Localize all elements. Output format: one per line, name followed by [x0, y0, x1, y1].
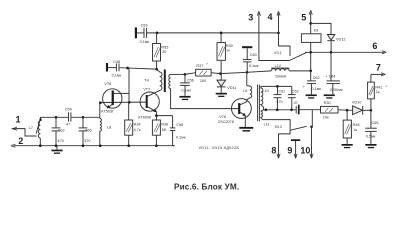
pin 2 arrow: [11, 144, 15, 147]
svg-text:R41: R41: [375, 85, 382, 89]
svg-text:470: 470: [57, 139, 63, 143]
svg-text:VD12: VD12: [336, 38, 346, 42]
svg-text:L7: L7: [29, 126, 33, 130]
svg-text:L12: L12: [275, 64, 281, 68]
wire C48 to T4 node: [119, 68, 156, 69]
svg-text:2: 2: [18, 136, 23, 146]
svg-text:+ C64: + C64: [325, 74, 335, 78]
svg-text:К3.2: К3.2: [275, 125, 283, 129]
node: K3.2 fixed: [310, 126, 313, 129]
output transformer core: [257, 85, 259, 122]
resistor R55: [153, 33, 169, 69]
relay contact K3.2: [275, 125, 307, 130]
capacitor C63 (series to K3.2/R30): [296, 105, 320, 115]
capacitor C60: [243, 48, 259, 72]
svg-text:VD11: VD11: [227, 86, 236, 90]
node: emitter branch: [155, 114, 158, 117]
svg-text:5: 5: [301, 12, 306, 22]
svg-text:VT8: VT8: [219, 115, 226, 119]
svg-text:6: 6: [372, 41, 377, 51]
svg-text:C62: C62: [292, 89, 299, 93]
node: rail/K3: [309, 51, 312, 54]
node: C60/L9: [246, 71, 249, 74]
svg-text:L9: L9: [243, 89, 247, 93]
svg-text:4: 4: [268, 12, 273, 22]
wire: rail down to main rail: [310, 52, 312, 71]
pin 1 arrow: [12, 129, 37, 136]
svg-text:56: 56: [162, 128, 166, 132]
svg-text:47: 47: [66, 123, 70, 127]
capacitor C69: [137, 23, 149, 44]
wire: L11 bottom to K3.2: [263, 120, 291, 130]
wire: drop to VT7 base line: [128, 68, 130, 102]
capacitor C48: [108, 60, 121, 77]
transformer T4: [144, 69, 170, 92]
svg-text:0,1мк: 0,1мк: [249, 64, 259, 68]
wire: pin3 line to K3.1 arm: [259, 33, 290, 61]
resistor R39: [217, 32, 233, 74]
resistor R30: [321, 101, 348, 119]
wire: L10 top rail: [261, 85, 292, 87]
ground (C64): [324, 94, 335, 98]
svg-text:1: 1: [16, 115, 21, 125]
node: R55 top: [156, 32, 159, 35]
svg-text:VT7: VT7: [143, 87, 150, 91]
ground (C62): [306, 94, 317, 98]
node: VD10 anode: [346, 109, 349, 112]
svg-text:C58: C58: [176, 123, 183, 127]
pin 9 arrow: [295, 141, 297, 158]
svg-text:10: 10: [300, 146, 310, 156]
wire: T4 secondary bottom to VT8 base: [171, 89, 239, 109]
node: C61 top: [276, 85, 279, 88]
inductor L10: [261, 86, 269, 109]
node: main rail end: [309, 70, 312, 73]
svg-text:VD11..VD15-КД522Б: VD11..VD15-КД522Б: [199, 146, 240, 150]
capacitor C64: [325, 52, 343, 94]
terminal bar (C69 feed): [135, 27, 137, 38]
relay contact K3.1: [274, 51, 306, 60]
resistor R46: [343, 110, 359, 144]
capacitor C65: [365, 110, 378, 144]
resistor R41: [368, 74, 388, 110]
wire: VT8 emitter to ground: [244, 116, 246, 127]
transistor VT8: [218, 99, 251, 125]
main rail R37..L12: [220, 72, 247, 73]
svg-text:47: 47: [294, 101, 298, 105]
node: L7 / rail junctions: [39, 144, 42, 147]
svg-text:30: 30: [162, 50, 166, 54]
capacitor C62a: [288, 86, 299, 111]
inductor L8: [99, 117, 111, 147]
svg-text:L11: L11: [264, 122, 270, 126]
svg-text:L8: L8: [107, 126, 111, 130]
svg-text:C62: C62: [58, 128, 65, 132]
capacitor C61: [274, 86, 286, 111]
svg-text:4,7к: 4,7к: [134, 128, 141, 132]
capacitor C66 (input shunt): [79, 116, 92, 147]
wire: pin4 node to K3.1 throw: [279, 33, 291, 56]
svg-text:20мкН: 20мкН: [275, 74, 286, 78]
svg-text:VT6: VT6: [104, 82, 111, 86]
svg-text:К3.1: К3.1: [274, 51, 282, 55]
svg-text:C56: C56: [187, 78, 194, 82]
terminal bar (C60 top): [242, 46, 252, 48]
node: pin4 / K3.1: [277, 32, 280, 35]
svg-text:R30: R30: [324, 101, 331, 105]
svg-text:C61: C61: [278, 89, 285, 93]
ground (input rail): [51, 150, 62, 154]
capacitor C62 (input shunt): [52, 116, 65, 147]
pin 4 arrow: [278, 13, 280, 33]
relay coil K3: [301, 23, 321, 52]
input top rail: [40, 116, 68, 118]
ground (R46): [342, 144, 353, 148]
svg-text:3: 3: [248, 13, 253, 23]
svg-text:2SC2078: 2SC2078: [218, 120, 234, 124]
svg-text:0,1мк: 0,1мк: [176, 135, 186, 139]
center tap wire: [264, 109, 296, 111]
ground (C56): [179, 96, 190, 100]
inductor L9 (output transformer primary): [243, 72, 252, 101]
node: R41/C65: [370, 109, 373, 112]
svg-text:К3: К3: [314, 28, 318, 32]
wire: K3.2 to pin8: [279, 130, 291, 158]
pin 6 rail: [305, 51, 384, 53]
svg-text:1к: 1к: [226, 48, 230, 52]
svg-text:КТ6008: КТ6008: [138, 115, 151, 119]
transistor VT6: [101, 82, 129, 113]
svg-text:R37: R37: [196, 64, 203, 68]
resistor R37: [185, 62, 220, 82]
wire: R30 down to K3.2 node: [311, 110, 313, 127]
svg-text:7: 7: [376, 63, 381, 73]
svg-text:8: 8: [271, 146, 276, 156]
capacitor C56: [180, 74, 194, 96]
svg-text:C54: C54: [65, 108, 72, 112]
diode VD10: [347, 101, 371, 115]
node: C48/VT7 base drop: [126, 67, 129, 70]
svg-text:C65: C65: [372, 121, 379, 125]
svg-text:0,1мк: 0,1мк: [312, 87, 322, 91]
svg-text:R39: R39: [226, 44, 233, 48]
svg-text:C60: C60: [250, 53, 257, 57]
svg-text:VD10: VD10: [352, 101, 362, 105]
svg-text:Рис.6. Блок УМ.: Рис.6. Блок УМ.: [174, 182, 239, 191]
terminal bar (C48 feed): [106, 63, 108, 72]
pin 3 arrow: [258, 13, 260, 33]
svg-text:R34: R34: [134, 122, 141, 126]
svg-text:9: 9: [287, 146, 292, 156]
bottom ground rail: [14, 145, 175, 147]
pin 9 terminal bar: [291, 139, 300, 141]
svg-text:C69: C69: [141, 23, 148, 27]
top rail to pin4 node: [147, 32, 279, 34]
svg-text:C62: C62: [313, 76, 320, 80]
node: K3 top: [309, 22, 312, 25]
svg-text:0,1мк: 0,1мк: [140, 40, 150, 44]
ground (VD11): [216, 93, 227, 97]
svg-text:2200мк: 2200мк: [330, 88, 343, 92]
svg-text:10к: 10к: [323, 116, 329, 120]
svg-text:1к: 1к: [353, 128, 357, 132]
node: VT7 base: [128, 101, 131, 104]
inductor L7: [29, 117, 42, 146]
svg-text:100: 100: [200, 79, 206, 83]
resistor R34: [125, 102, 141, 147]
inductor L12: [271, 64, 289, 78]
svg-text:C48: C48: [113, 60, 120, 64]
svg-text:Т4: Т4: [144, 78, 148, 82]
transistor VT7: [138, 87, 160, 119]
svg-text:C66: C66: [85, 128, 92, 132]
ground (VT8 emitter): [239, 127, 253, 132]
svg-text:0,5мк: 0,5мк: [366, 135, 376, 139]
svg-text:R46: R46: [353, 123, 360, 127]
svg-text:0,1мк: 0,1мк: [181, 89, 191, 93]
capacitor C62 (supply bypass): [303, 71, 322, 94]
node: R39/VD11: [219, 72, 222, 75]
node: T4 primary top: [155, 68, 158, 71]
svg-text:470: 470: [84, 139, 90, 143]
diode VD11: [217, 74, 237, 93]
svg-text:КТ503Г: КТ503Г: [101, 109, 114, 113]
svg-text:L10: L10: [262, 89, 268, 93]
wire: VT7 emitter down: [155, 112, 157, 120]
pin 7 arrow: [371, 73, 383, 75]
wire: T4 secondary top to rail: [171, 73, 185, 75]
svg-text:R55: R55: [161, 45, 168, 49]
diode VD12: [311, 23, 346, 52]
pin 5 arrow: [310, 12, 312, 23]
capacitor C58: [170, 116, 186, 146]
node: C56: [184, 73, 187, 76]
capacitor C54 (series): [65, 108, 72, 127]
svg-text:1к: 1к: [376, 90, 380, 94]
inductor L11: [261, 110, 270, 127]
wire: rail corner up to VT6 emitter line: [100, 102, 146, 117]
svg-text:470: 470: [276, 100, 282, 104]
svg-text:0,1мк: 0,1мк: [112, 73, 122, 77]
ground (C65): [365, 144, 376, 148]
node: rail/VD12/C64: [330, 51, 333, 54]
pin 10 arrow: [311, 127, 313, 158]
resistor R36: [152, 120, 168, 147]
svg-text:R36: R36: [161, 122, 168, 126]
